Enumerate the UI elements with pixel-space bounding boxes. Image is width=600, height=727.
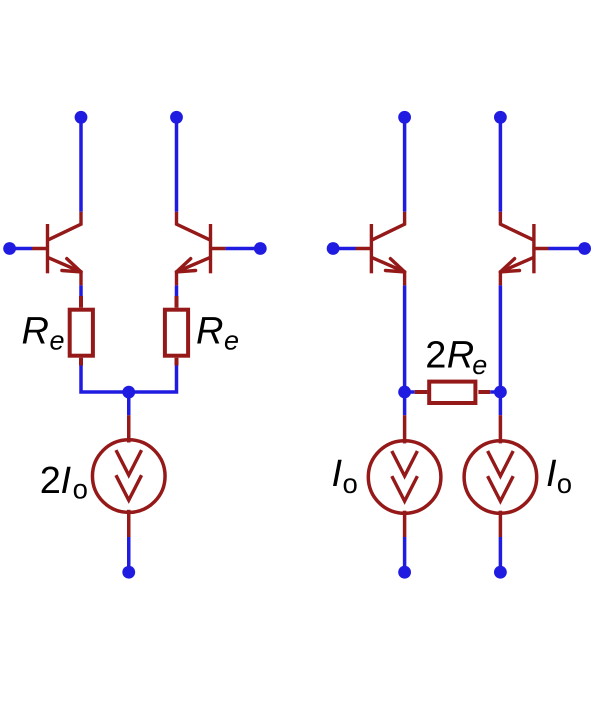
svg-text:R: R <box>447 335 474 377</box>
wire emitter Q3 to node <box>403 285 407 392</box>
label I3 value Io <box>546 453 572 499</box>
wire I2 bottom <box>403 537 407 572</box>
transistor Q2 <box>177 212 226 286</box>
label RE3 value 2Re <box>425 335 487 380</box>
svg-text:R: R <box>22 310 49 352</box>
svg-text:o: o <box>343 468 358 499</box>
wire collector Q4 <box>499 117 503 211</box>
wire emitter junction left pair <box>81 366 177 393</box>
svg-text:e: e <box>50 326 65 356</box>
svg-text:I: I <box>332 453 343 495</box>
svg-text:R: R <box>196 310 223 352</box>
svg-text:2: 2 <box>425 335 446 377</box>
node collector Q3 terminal <box>398 111 411 124</box>
label I2 value Io <box>332 453 358 499</box>
svg-text:o: o <box>557 468 572 499</box>
label I1 value 2Io <box>40 460 88 505</box>
transistor Q3 <box>356 212 405 286</box>
node emitter Q4 <box>494 386 507 399</box>
wire collector Q1 <box>79 117 83 211</box>
wire emitter Q2 stub <box>175 285 179 296</box>
transistor Q1 <box>32 212 81 286</box>
wire node E4 to source <box>499 392 503 415</box>
label RE2 value Re <box>196 310 239 355</box>
node base Q2 terminal <box>254 242 267 255</box>
wire base Q2 <box>225 247 260 251</box>
current source I3 <box>464 415 537 537</box>
svg-text:2: 2 <box>40 460 61 502</box>
svg-text:e: e <box>224 326 239 356</box>
wire collector Q3 <box>403 117 407 211</box>
node collector Q2 terminal <box>170 111 183 124</box>
label RE1 value Re <box>22 310 65 355</box>
node emitter Q3 <box>398 386 411 399</box>
resistor RE3 horizontal 2Re <box>415 382 490 403</box>
node collector Q1 terminal <box>75 111 88 124</box>
wire emitter Q4 to node <box>499 285 503 392</box>
wire stub node E3 right <box>405 390 415 394</box>
node collector Q4 terminal <box>494 111 507 124</box>
svg-text:e: e <box>472 350 487 380</box>
resistor RE1 <box>70 296 93 366</box>
wire base Q1 <box>10 247 32 251</box>
node tail junction <box>122 386 135 399</box>
current source I1 <box>92 415 165 537</box>
wire emitter Q1 stub <box>79 285 83 296</box>
wire base Q3 <box>333 247 355 251</box>
svg-text:o: o <box>73 474 88 505</box>
svg-text:I: I <box>61 460 72 502</box>
transistor Q4 <box>500 212 548 286</box>
node I3 bottom terminal <box>494 566 507 579</box>
node base Q4 terminal <box>578 242 591 255</box>
wire I3 bottom <box>499 537 503 572</box>
wire tail node to source <box>127 392 131 415</box>
node base Q1 terminal <box>3 242 16 255</box>
node base Q3 terminal <box>327 242 340 255</box>
wire base Q4 <box>549 247 585 251</box>
resistor RE2 <box>165 296 188 366</box>
svg-text:I: I <box>546 453 557 495</box>
current source I2 <box>368 415 441 537</box>
node I2 bottom terminal <box>398 566 411 579</box>
wire stub node E4 left <box>490 390 500 394</box>
wire collector Q2 <box>175 117 179 211</box>
wire I1 bottom <box>127 537 131 572</box>
wire node E3 to source <box>403 392 407 415</box>
node I1 bottom terminal <box>122 566 135 579</box>
